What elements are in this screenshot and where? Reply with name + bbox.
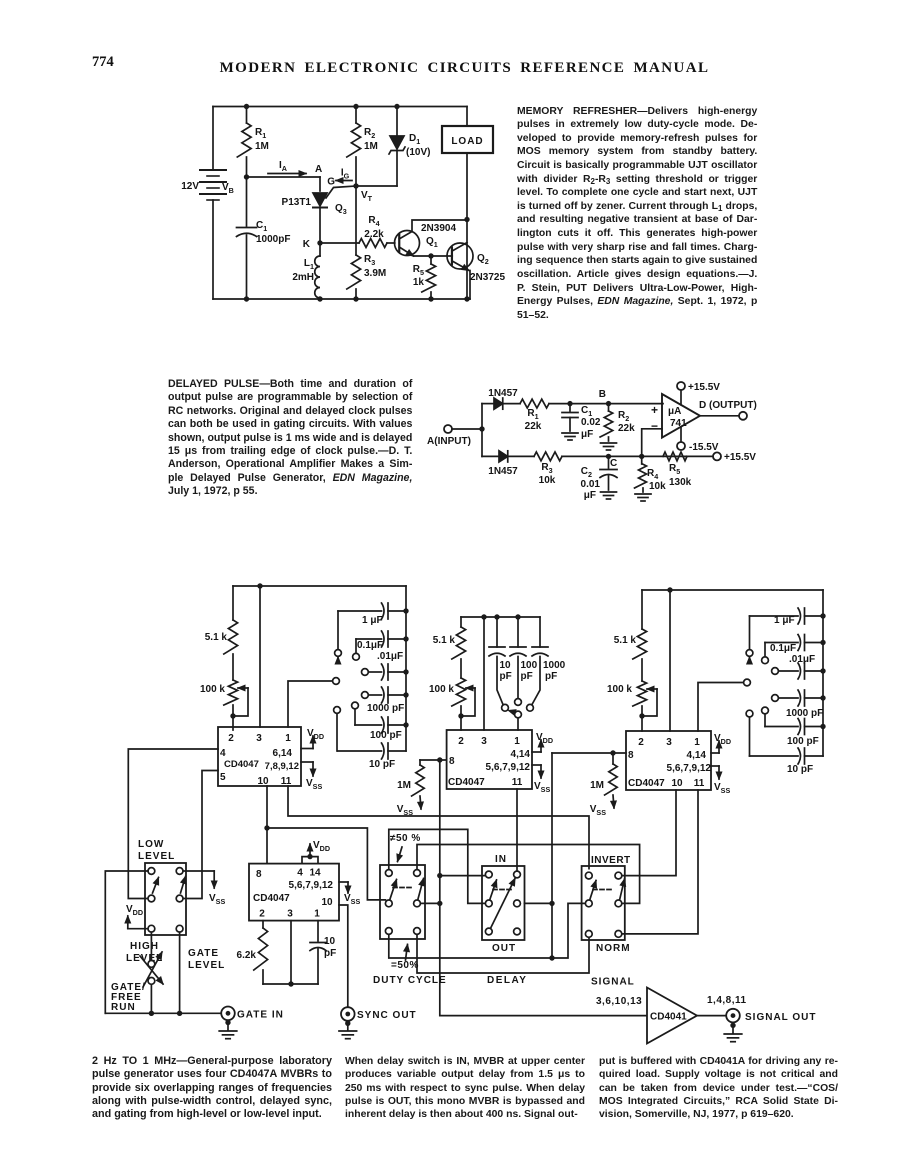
svg-text:10: 10 — [324, 936, 336, 947]
svg-text:μA: μA — [668, 406, 681, 417]
svg-text:.01μF: .01μF — [789, 654, 815, 665]
svg-text:6,14: 6,14 — [273, 748, 293, 759]
svg-text:3,6,10,13: 3,6,10,13 — [596, 996, 642, 1007]
svg-text:C: C — [610, 458, 617, 469]
svg-text:5,6,7,9,12: 5,6,7,9,12 — [289, 880, 334, 891]
svg-text:LOAD: LOAD — [451, 136, 483, 147]
svg-text:GATE: GATE — [188, 948, 219, 959]
svg-text:10: 10 — [500, 660, 512, 671]
svg-text:3.9M: 3.9M — [364, 268, 386, 279]
svg-text:2N3904: 2N3904 — [421, 223, 456, 234]
svg-text:HIGH: HIGH — [130, 941, 159, 952]
svg-text:1N457: 1N457 — [488, 388, 518, 399]
svg-text:3: 3 — [256, 733, 262, 744]
svg-text:VSS: VSS — [344, 893, 360, 906]
svg-text:GATE IN: GATE IN — [237, 1010, 284, 1021]
svg-text:1: 1 — [514, 736, 520, 747]
svg-text:1M: 1M — [364, 141, 378, 152]
svg-text:10k: 10k — [539, 475, 556, 486]
svg-text:K: K — [303, 239, 311, 250]
svg-text:130k: 130k — [669, 477, 692, 488]
svg-text:R3: R3 — [541, 462, 552, 475]
svg-text:11: 11 — [512, 777, 523, 788]
svg-text:(10V): (10V) — [406, 147, 430, 158]
svg-text:SYNC OUT: SYNC OUT — [357, 1010, 417, 1021]
svg-text:VDD: VDD — [714, 733, 731, 746]
svg-text:+: + — [651, 403, 658, 417]
svg-text:R3: R3 — [364, 254, 375, 267]
svg-text:VSS: VSS — [714, 782, 730, 795]
svg-text:100 pF: 100 pF — [370, 730, 402, 741]
svg-text:INVERT: INVERT — [591, 855, 631, 866]
svg-text:11: 11 — [694, 778, 705, 789]
svg-text:+15.5V: +15.5V — [724, 452, 756, 463]
svg-text:R4: R4 — [647, 468, 658, 481]
svg-text:1000: 1000 — [543, 660, 566, 671]
svg-text:NORM: NORM — [596, 943, 631, 954]
svg-text:2: 2 — [458, 736, 464, 747]
svg-text:4,14: 4,14 — [687, 750, 707, 761]
svg-text:100 k: 100 k — [607, 684, 632, 695]
svg-text:VDD: VDD — [313, 840, 330, 853]
svg-text:741: 741 — [670, 418, 687, 429]
svg-text:CD4047: CD4047 — [448, 777, 485, 788]
svg-text:IA: IA — [279, 160, 287, 173]
svg-text:0.01: 0.01 — [581, 479, 601, 490]
svg-text:R4: R4 — [368, 215, 379, 228]
svg-text:100: 100 — [521, 660, 538, 671]
svg-text:VSS: VSS — [534, 781, 550, 794]
svg-text:2mH: 2mH — [292, 272, 314, 283]
svg-text:1000 pF: 1000 pF — [786, 708, 823, 719]
svg-text:4,14: 4,14 — [511, 749, 531, 760]
svg-text:D1: D1 — [409, 133, 420, 146]
svg-text:CD4047: CD4047 — [224, 759, 259, 770]
svg-text:1k: 1k — [413, 277, 425, 288]
svg-text:1: 1 — [694, 737, 700, 748]
svg-text:0.02: 0.02 — [581, 417, 601, 428]
svg-text:100 k: 100 k — [429, 684, 454, 695]
svg-text:1M: 1M — [255, 141, 269, 152]
svg-text:1000pF: 1000pF — [256, 234, 290, 245]
svg-text:0.1μF: 0.1μF — [770, 643, 796, 654]
svg-text:3: 3 — [287, 909, 293, 920]
svg-text:2.2k: 2.2k — [364, 229, 384, 240]
svg-text:12V: 12V — [181, 181, 199, 192]
svg-text:10k: 10k — [649, 481, 666, 492]
svg-text:3: 3 — [481, 736, 487, 747]
svg-text:14: 14 — [309, 868, 321, 879]
svg-text:G: G — [327, 177, 335, 188]
svg-text:1 μF: 1 μF — [362, 615, 383, 626]
svg-text:5: 5 — [220, 772, 226, 783]
svg-text:+15.5V: +15.5V — [688, 382, 720, 393]
svg-text:R1: R1 — [255, 127, 266, 140]
svg-text:pF: pF — [521, 671, 533, 682]
svg-text:2: 2 — [259, 909, 265, 920]
svg-text:A(INPUT): A(INPUT) — [427, 436, 471, 447]
svg-text:LEVEL: LEVEL — [138, 851, 175, 862]
svg-text:DELAY: DELAY — [487, 975, 527, 986]
svg-text:CD4047: CD4047 — [253, 893, 290, 904]
svg-text:IN: IN — [495, 854, 507, 865]
svg-text:−: − — [651, 419, 658, 433]
svg-text:pF: pF — [545, 671, 557, 682]
svg-text:2N3725: 2N3725 — [470, 272, 505, 283]
svg-text:μF: μF — [584, 490, 596, 501]
svg-text:pF: pF — [500, 671, 512, 682]
svg-text:P13T1: P13T1 — [282, 197, 312, 208]
svg-text:1,4,8,11: 1,4,8,11 — [707, 995, 747, 1006]
svg-text:5,6,7,9,12: 5,6,7,9,12 — [486, 762, 531, 773]
svg-text:0.1μF: 0.1μF — [357, 640, 383, 651]
svg-text:R1: R1 — [527, 408, 538, 421]
svg-text:VSS: VSS — [397, 804, 413, 817]
svg-text:D (OUTPUT): D (OUTPUT) — [699, 400, 757, 411]
svg-text:8: 8 — [628, 750, 634, 761]
svg-text:VSS: VSS — [209, 893, 225, 906]
svg-text:10: 10 — [671, 778, 683, 789]
svg-text:A: A — [315, 164, 322, 175]
svg-text:7,8,9,12: 7,8,9,12 — [265, 761, 299, 772]
svg-text:VT: VT — [361, 190, 373, 203]
svg-text:L1: L1 — [304, 258, 314, 271]
svg-text:DUTY CYCLE: DUTY CYCLE — [373, 975, 447, 986]
svg-text:OUT: OUT — [492, 943, 516, 954]
svg-text:10 pF: 10 pF — [369, 759, 395, 770]
svg-text:B: B — [599, 389, 606, 400]
svg-text:4: 4 — [297, 868, 303, 879]
svg-text:1: 1 — [285, 733, 291, 744]
svg-text:6.2k: 6.2k — [237, 950, 257, 961]
svg-text:LEVEL: LEVEL — [188, 960, 225, 971]
svg-text:SIGNAL OUT: SIGNAL OUT — [745, 1012, 816, 1023]
svg-text:5.1 k: 5.1 k — [433, 635, 456, 646]
svg-text:RUN: RUN — [111, 1002, 136, 1013]
svg-text:1M: 1M — [397, 780, 411, 791]
svg-text:11: 11 — [281, 776, 292, 787]
svg-text:R5: R5 — [413, 264, 424, 277]
svg-text:μF: μF — [581, 429, 593, 440]
svg-text:Q2: Q2 — [477, 253, 489, 266]
svg-text:=50%: =50% — [391, 960, 419, 971]
svg-text:pF: pF — [324, 948, 336, 959]
svg-text:CD4041: CD4041 — [650, 1012, 687, 1023]
svg-text:-15.5V: -15.5V — [689, 442, 719, 453]
svg-text:8: 8 — [256, 869, 262, 880]
svg-text:10 pF: 10 pF — [787, 764, 813, 775]
svg-text:2: 2 — [228, 733, 234, 744]
svg-text:22k: 22k — [525, 421, 542, 432]
svg-text:5.1 k: 5.1 k — [614, 635, 637, 646]
svg-text:R2: R2 — [618, 410, 629, 423]
svg-text:LOW: LOW — [138, 839, 164, 850]
svg-text:1 μF: 1 μF — [774, 615, 795, 626]
svg-text:1000 pF: 1000 pF — [367, 703, 404, 714]
svg-text:8: 8 — [449, 756, 455, 767]
svg-text:.01μF: .01μF — [377, 651, 403, 662]
svg-text:VSS: VSS — [590, 804, 606, 817]
svg-text:2: 2 — [638, 737, 644, 748]
svg-text:Q1: Q1 — [426, 236, 438, 249]
svg-text:4: 4 — [220, 748, 226, 759]
svg-text:VDD: VDD — [307, 728, 324, 741]
svg-text:100 k: 100 k — [200, 684, 225, 695]
svg-text:1: 1 — [314, 909, 320, 920]
svg-text:VDD: VDD — [536, 732, 553, 745]
svg-text:1N457: 1N457 — [488, 466, 518, 477]
svg-text:VSS: VSS — [306, 778, 322, 791]
svg-text:3: 3 — [666, 737, 672, 748]
svg-text:1M: 1M — [590, 780, 604, 791]
svg-text:5.1 k: 5.1 k — [205, 632, 228, 643]
svg-text:C2: C2 — [581, 466, 592, 479]
svg-text:Q3: Q3 — [335, 203, 347, 216]
svg-text:CD4047: CD4047 — [628, 778, 665, 789]
svg-text:R5: R5 — [669, 463, 680, 476]
svg-text:VDD: VDD — [126, 904, 143, 917]
svg-text:≠50 %: ≠50 % — [390, 833, 421, 844]
svg-text:SIGNAL: SIGNAL — [591, 977, 635, 988]
svg-text:5,6,7,9,12: 5,6,7,9,12 — [667, 763, 712, 774]
svg-text:22k: 22k — [618, 423, 635, 434]
svg-text:10: 10 — [321, 897, 333, 908]
svg-text:R2: R2 — [364, 127, 375, 140]
svg-text:100 pF: 100 pF — [787, 736, 819, 747]
svg-text:C1: C1 — [256, 220, 267, 233]
